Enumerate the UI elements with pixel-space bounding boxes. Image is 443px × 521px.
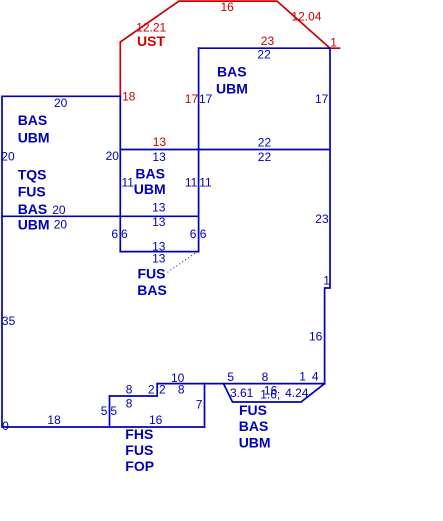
svg-text:20: 20: [1, 149, 15, 163]
svg-text:16: 16: [149, 413, 163, 427]
svg-text:20: 20: [54, 96, 68, 110]
svg-text:22: 22: [258, 135, 272, 149]
svg-text:6: 6: [111, 227, 118, 241]
svg-text:8: 8: [126, 397, 133, 411]
svg-text:1: 1: [323, 274, 330, 288]
svg-text:13: 13: [152, 150, 166, 164]
svg-text:35: 35: [2, 314, 16, 328]
svg-text:BAS: BAS: [137, 282, 167, 298]
svg-text:22: 22: [257, 48, 271, 62]
svg-text:UBM: UBM: [18, 129, 50, 145]
svg-text:11: 11: [199, 175, 212, 189]
svg-text:12.04: 12.04: [291, 10, 321, 24]
svg-text:8: 8: [178, 383, 185, 397]
svg-text:20: 20: [54, 217, 68, 231]
svg-text:6: 6: [200, 227, 207, 241]
svg-text:8: 8: [262, 370, 269, 384]
svg-text:FUS: FUS: [138, 266, 166, 282]
svg-text:BAS: BAS: [18, 201, 48, 217]
svg-text:6: 6: [121, 227, 128, 241]
svg-text:4.24: 4.24: [285, 386, 309, 400]
svg-text:16: 16: [264, 384, 278, 398]
svg-text:1: 1: [330, 36, 337, 50]
svg-text:13: 13: [152, 215, 166, 229]
svg-text:11: 11: [185, 175, 198, 189]
svg-text:BAS: BAS: [217, 63, 247, 79]
svg-text:5: 5: [101, 404, 108, 418]
svg-text:UBM: UBM: [18, 216, 50, 232]
svg-text:UBM: UBM: [216, 80, 248, 96]
svg-text:7: 7: [196, 398, 203, 412]
svg-text:2: 2: [159, 382, 166, 396]
svg-text:3.61: 3.61: [230, 386, 254, 400]
svg-text:FHS: FHS: [125, 426, 153, 442]
svg-text:16: 16: [221, 0, 235, 14]
svg-text:4: 4: [312, 370, 319, 384]
svg-text:0: 0: [2, 419, 9, 433]
svg-text:20: 20: [52, 203, 66, 217]
svg-text:22: 22: [258, 150, 272, 164]
svg-text:TQS: TQS: [18, 167, 47, 183]
svg-text:13: 13: [152, 200, 166, 214]
svg-text:18: 18: [122, 89, 136, 103]
svg-text:20: 20: [106, 149, 120, 163]
svg-text:13: 13: [152, 251, 166, 265]
svg-text:17: 17: [199, 92, 213, 106]
svg-text:23: 23: [315, 212, 329, 226]
svg-text:2: 2: [148, 382, 155, 396]
svg-text:UBM: UBM: [239, 435, 271, 451]
svg-text:16: 16: [309, 329, 323, 343]
svg-text:1: 1: [299, 370, 306, 384]
svg-text:23: 23: [261, 34, 275, 48]
svg-text:UBM: UBM: [134, 181, 166, 197]
svg-text:FOP: FOP: [125, 458, 154, 474]
svg-text:BAS: BAS: [135, 166, 165, 182]
svg-text:18: 18: [47, 413, 61, 427]
svg-text:17: 17: [185, 92, 199, 106]
svg-text:13: 13: [153, 135, 167, 149]
svg-text:FUS: FUS: [239, 402, 267, 418]
svg-text:8: 8: [126, 382, 133, 396]
svg-text:17: 17: [315, 92, 329, 106]
svg-text:BAS: BAS: [18, 112, 48, 128]
svg-text:6: 6: [190, 227, 197, 241]
svg-text:UST: UST: [137, 33, 165, 49]
svg-text:11: 11: [122, 175, 135, 189]
svg-text:BAS: BAS: [239, 418, 269, 434]
svg-text:FUS: FUS: [125, 442, 153, 458]
svg-text:5: 5: [110, 404, 117, 418]
svg-text:FUS: FUS: [18, 184, 46, 200]
svg-text:5: 5: [227, 370, 234, 384]
